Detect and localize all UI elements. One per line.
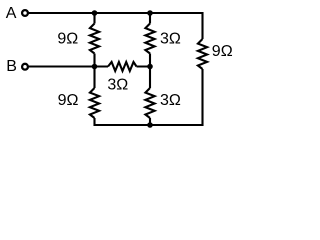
resistor 3ohm middle horizontal — [108, 62, 137, 71]
wire horizontal resistor leads — [95, 65, 151, 67]
terminal B circle — [22, 64, 28, 70]
junction mid-left node — [92, 64, 98, 70]
junction bottom node — [147, 122, 153, 128]
svg-text:9Ω: 9Ω — [212, 43, 233, 60]
svg-text:3Ω: 3Ω — [160, 92, 181, 109]
svg-text:A: A — [6, 5, 17, 22]
junction top-left node — [92, 10, 98, 16]
wire mid branch leads — [149, 13, 151, 125]
junction top-mid node — [147, 10, 153, 16]
svg-text:9Ω: 9Ω — [57, 30, 78, 47]
wire bottom — [95, 69, 203, 125]
svg-text:9Ω: 9Ω — [58, 92, 79, 109]
wire middle (B to node) — [29, 65, 95, 67]
svg-text:3Ω: 3Ω — [107, 77, 128, 94]
junction mid-right node — [147, 64, 153, 70]
wire left branch leads — [93, 13, 95, 88]
resistor 9ohm bottom-left — [90, 88, 99, 118]
resistor 3ohm bottom-mid — [145, 88, 154, 118]
terminal A circle — [22, 10, 28, 16]
resistor 3ohm top-mid — [145, 24, 154, 54]
wire top (A to top-right corner) — [29, 13, 203, 39]
svg-text:3Ω: 3Ω — [160, 31, 181, 48]
svg-text:B: B — [6, 58, 17, 75]
resistor 9ohm right — [198, 39, 207, 69]
resistor 9ohm top-left — [90, 24, 99, 54]
